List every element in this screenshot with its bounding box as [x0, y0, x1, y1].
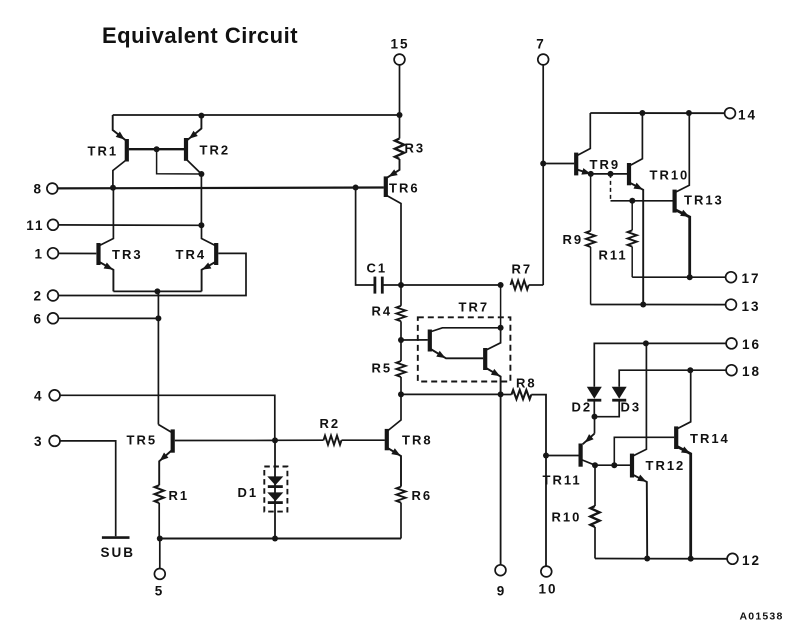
TR1 collector lead: [113, 160, 127, 188]
TR4 collector lead: [202, 225, 217, 246]
wire TR8 collector node to R8 node: [401, 393, 501, 395]
wire pin4 line: [55, 395, 275, 440]
svg-text:R7: R7: [512, 262, 533, 277]
node TR10 emitter on pin13 rail: [640, 302, 646, 308]
node D2/D3 cathodes junction: [592, 414, 598, 420]
wire pin2 to TR4 base: [53, 253, 246, 295]
wire R7 right lead: [529, 284, 544, 286]
wire R4 to R5: [400, 321, 402, 361]
wire TR7a base lead: [401, 339, 428, 341]
wire pin3 to SUB: [55, 441, 116, 536]
svg-text:TR14: TR14: [690, 431, 730, 446]
transistor TR6 emitter lead: [386, 159, 399, 178]
node pin11/TR2/TR4 collector junction: [198, 222, 204, 228]
wire R8 to pin10: [531, 395, 546, 566]
svg-text:D3: D3: [621, 400, 642, 415]
resistor R8: [512, 390, 532, 399]
wire to TR14 base: [614, 437, 674, 465]
TR12 collector lead: [632, 343, 646, 456]
svg-text:C1: C1: [367, 261, 388, 276]
TR5 emitter arrow: [157, 453, 168, 464]
wire pin13 rail: [591, 304, 726, 306]
svg-text:2: 2: [33, 289, 43, 304]
transistor TR1 emitter lead: [113, 115, 126, 141]
node TR13 collector on rail: [686, 110, 692, 116]
node TR11 collector junction: [592, 462, 598, 468]
wire TR11 base lead: [546, 455, 579, 457]
TR4 emitter lead: [202, 262, 217, 292]
wire R11 to pin17 rail: [631, 247, 633, 278]
wire R9 to pin13 rail: [590, 247, 592, 305]
TR11 collector lead: [582, 460, 595, 465]
TR8 collector lead: [387, 394, 401, 431]
wire top-left supply rail: [113, 114, 400, 116]
TR8 emitter lead: [387, 448, 401, 487]
pin 12 terminal: [727, 553, 738, 564]
svg-text:6: 6: [33, 311, 43, 326]
svg-text:7: 7: [536, 37, 546, 52]
svg-text:9: 9: [497, 584, 507, 599]
svg-text:TR5: TR5: [127, 432, 158, 447]
resistor R6: [396, 487, 405, 503]
transistor TR2 emitter lead: [187, 116, 201, 141]
node emitter-tie junction: [154, 288, 160, 294]
svg-text:17: 17: [742, 271, 761, 286]
transistor TR14 bar: [674, 426, 678, 449]
svg-text:D1: D1: [238, 485, 259, 500]
svg-text:5: 5: [155, 584, 165, 599]
svg-text:R8: R8: [516, 376, 537, 391]
svg-text:R9: R9: [563, 232, 584, 247]
node TR12 collector on pin16 rail: [643, 340, 649, 346]
wire TR11 collector to TR12 base: [595, 464, 630, 466]
wire TR2 base-collector tie: [157, 149, 202, 174]
wire TR7 collector up to R7 node: [500, 285, 502, 328]
node TR7 base tap: [398, 337, 404, 343]
node C1/R4/TR6 junction: [398, 282, 404, 288]
svg-text:TR12: TR12: [646, 458, 686, 473]
svg-text:R1: R1: [169, 488, 190, 503]
node R1/pin5 junction: [157, 536, 163, 542]
pin 1 terminal: [48, 248, 59, 259]
wire TR9 emitter to TR10 base: [591, 173, 627, 175]
svg-text:14: 14: [738, 107, 757, 122]
node R7 / TR7 collector junction: [498, 282, 504, 288]
pin 10 terminal: [541, 566, 552, 577]
wire pin8 rail to TR6 base: [52, 186, 384, 189]
node pin15 / rail / R3 junction: [397, 112, 403, 118]
svg-text:10: 10: [538, 582, 557, 597]
wire D1 through-wire: [274, 440, 276, 538]
TR5 emitter lead: [159, 450, 173, 486]
svg-text:R11: R11: [599, 248, 628, 263]
TR11 emitter arrow (PNP): [583, 434, 594, 445]
wire pin7 lead: [542, 65, 544, 164]
wire to R4: [400, 285, 402, 306]
node pin7/TR9 base junction: [540, 161, 546, 167]
TR7a collector lead: [430, 328, 501, 332]
pin 8 terminal: [47, 183, 58, 194]
node D1 bottom junction: [272, 536, 278, 542]
pin 11 terminal: [48, 219, 59, 230]
pin 18 terminal: [726, 365, 737, 376]
pin 5 terminal: [154, 569, 165, 580]
transistor TR5 bar: [171, 429, 175, 452]
TR13 emitter lead: [675, 209, 690, 277]
TR14 emitter arrow: [681, 446, 692, 456]
wire pin7 column down to R7: [542, 164, 544, 286]
svg-text:TR13: TR13: [684, 193, 724, 208]
wire tail current line down to TR5: [157, 291, 159, 424]
svg-text:D2: D2: [572, 400, 593, 415]
wire bottom rail: [159, 538, 401, 540]
TR1 emitter arrow (PNP): [116, 132, 127, 143]
wire pin11 line: [53, 224, 201, 226]
wire pin5 lead: [159, 539, 161, 569]
node TR14 base branch: [611, 462, 617, 468]
svg-text:13: 13: [742, 299, 761, 314]
TR10 emitter lead down to pin13 rail: [629, 182, 643, 304]
pin 2 terminal: [48, 290, 59, 301]
TR2 emitter arrow (PNP): [187, 131, 198, 142]
wire R5 to lower node: [400, 377, 402, 394]
transistor TR3 bar: [96, 243, 100, 265]
wire R6 to bottom rail: [400, 503, 402, 539]
svg-text:TR2: TR2: [200, 143, 231, 158]
node TR1/TR3 collectors on pin8 rail: [110, 185, 116, 191]
svg-text:11: 11: [26, 218, 44, 233]
svg-text:16: 16: [742, 337, 761, 352]
node base-rail tap: [154, 146, 160, 152]
node TR13 base branch junction: [608, 171, 614, 177]
pin 6 terminal: [48, 313, 59, 324]
TR5 collector lead: [158, 425, 172, 434]
wire TR5 base line: [175, 439, 275, 441]
node TR7 emitter/R8/pin9 junction: [498, 391, 504, 397]
svg-text:3: 3: [34, 434, 44, 449]
wire R1 to bottom rail: [158, 503, 160, 539]
resistor R5: [396, 361, 405, 377]
transistor TR11 emitter lead: [583, 434, 595, 445]
TR7b collector lead: [485, 328, 500, 351]
transistor TR13 bar: [672, 190, 676, 213]
svg-text:TR10: TR10: [650, 168, 690, 183]
wire pin14 rail: [590, 112, 724, 114]
diode D1 lower: [267, 492, 283, 501]
node pin4/R2/D1 junction: [272, 437, 278, 443]
node R5/TR8 junction: [398, 391, 404, 397]
TR6 emitter arrow (PNP): [387, 169, 398, 179]
wire rail to R3: [399, 115, 401, 139]
wire D3 cathode jog: [595, 401, 620, 417]
TR9 emitter lead: [576, 169, 591, 174]
transistor TR1 bar: [125, 139, 129, 162]
TR10 emitter arrow: [634, 183, 645, 193]
resistor R3: [395, 139, 404, 159]
TR7b emitter lead: [485, 368, 500, 395]
svg-text:15: 15: [390, 37, 409, 52]
pin 4 terminal: [49, 390, 60, 401]
svg-text:4: 4: [34, 388, 44, 403]
diode D1 dashed box: [264, 467, 287, 512]
TR2 collector lead: [186, 159, 201, 174]
transistor TR7a bar: [428, 330, 432, 352]
svg-text:TR8: TR8: [402, 433, 433, 448]
TR7a emitter arrow: [436, 351, 447, 361]
pin 17 terminal: [726, 272, 737, 283]
TR3 collector lead: [99, 188, 114, 246]
pin 7 terminal: [538, 54, 549, 65]
svg-text:SUB: SUB: [101, 545, 136, 560]
node TR14 collector on pin18 rail: [687, 367, 693, 373]
TR13 emitter arrow: [680, 210, 691, 220]
TR8 emitter arrow: [391, 448, 402, 458]
pin 13 terminal: [726, 299, 737, 310]
svg-text:8: 8: [33, 182, 43, 197]
diode D1 upper: [267, 476, 283, 485]
TR12 emitter lead: [632, 474, 647, 558]
wire TR2 collector down to node: [200, 174, 202, 225]
TR13 collector lead: [675, 113, 690, 193]
svg-text:TR1: TR1: [88, 144, 119, 159]
diode D2: [587, 387, 602, 399]
svg-text:12: 12: [742, 553, 761, 568]
transistor TR10 bar: [627, 163, 631, 185]
wire pin9 lead: [500, 394, 502, 564]
node TR6 base tap: [353, 185, 359, 191]
node TR12 emitter on pin12 rail: [644, 556, 650, 562]
TR3 emitter lead: [99, 262, 114, 292]
resistor R9: [586, 231, 595, 247]
transistor TR6 bar: [384, 176, 388, 197]
wire TR6 base to C1: [356, 188, 374, 286]
TR6 collector lead: [386, 195, 401, 285]
ground SUB bar: [102, 536, 130, 539]
svg-text:R4: R4: [372, 304, 393, 319]
svg-text:TR9: TR9: [590, 157, 621, 172]
pin 16 terminal: [726, 338, 737, 349]
wire pin12 rail: [595, 558, 727, 560]
wire branch to TR13 base (dashed in scan): [610, 174, 612, 201]
pin 14 terminal: [725, 108, 736, 119]
svg-text:R2: R2: [320, 416, 341, 431]
wire pin17 rail: [632, 276, 725, 278]
TR3 emitter arrow: [104, 262, 115, 272]
pin 15 terminal: [394, 54, 405, 65]
wire to TR11 emitter: [594, 417, 596, 434]
TR7a emitter to TR7b base: [430, 349, 483, 359]
wire TR3/TR4 emitter tie: [113, 290, 201, 292]
wire pin18 rail to D3: [619, 370, 726, 387]
TR14 collector lead: [676, 370, 691, 429]
svg-text:A01538: A01538: [740, 611, 784, 623]
node TR2 emitter / rail junction: [198, 113, 204, 119]
node TR7 collectors junction: [498, 325, 504, 331]
resistor R10: [590, 506, 599, 527]
wire R2 to TR8 base: [342, 439, 385, 441]
node TR10 collector on rail: [639, 110, 645, 116]
svg-text:R3: R3: [405, 141, 426, 156]
wire to R11: [631, 201, 633, 231]
resistor R4: [396, 306, 405, 322]
svg-text:TR7: TR7: [459, 300, 490, 315]
wire pin6 line: [53, 317, 158, 319]
TR12 emitter arrow: [637, 475, 648, 485]
wire to R10: [594, 465, 596, 506]
wire R10 to pin12 rail: [594, 527, 596, 559]
TR10 collector lead: [629, 113, 642, 166]
wire pin16 rail to D2: [594, 343, 726, 386]
transistor TR9 bar: [574, 153, 578, 176]
resistor R11: [628, 230, 637, 246]
svg-text:TR4: TR4: [176, 247, 207, 262]
svg-text:TR11: TR11: [543, 473, 582, 488]
transistor TR4 bar: [214, 243, 218, 265]
svg-text:18: 18: [742, 364, 761, 379]
svg-text:R10: R10: [552, 510, 582, 525]
TR7b emitter arrow: [491, 369, 502, 379]
svg-text:TR6: TR6: [389, 181, 420, 196]
node R11 tap on TR13 base line: [629, 198, 635, 204]
wire D2 cathode down: [593, 401, 595, 417]
wire to R8: [501, 394, 512, 396]
svg-text:R5: R5: [372, 361, 393, 376]
wire TR13 base line: [611, 200, 673, 202]
resistor R7: [511, 280, 529, 289]
transistor TR7b bar: [483, 348, 487, 370]
wire pin15 lead: [399, 65, 401, 115]
transistor TR12 bar: [630, 454, 634, 478]
TR9 emitter arrow: [581, 168, 591, 177]
diode D3: [612, 387, 627, 399]
transistor TR2 bar: [184, 138, 188, 161]
node TR14 emitter on pin12 rail: [688, 556, 694, 562]
resistor R1: [155, 485, 164, 503]
wire C1 to center column: [383, 284, 401, 286]
svg-text:TR3: TR3: [112, 247, 143, 262]
node TR13 emitter on pin17 rail: [687, 274, 693, 280]
TR9 collector lead: [576, 113, 590, 156]
wire pin1 to TR3 base: [53, 252, 96, 254]
transistor TR8 bar: [385, 429, 389, 450]
svg-text:Equivalent Circuit: Equivalent Circuit: [102, 23, 298, 48]
wire C1 node to R7 node: [401, 284, 501, 286]
wire to R2: [275, 439, 324, 441]
transistor TR7 dashed box: [418, 317, 511, 381]
pin 9 terminal: [495, 565, 506, 576]
node TR2 collector tie: [198, 171, 204, 177]
capacitor C1: [373, 277, 376, 294]
wire TR9 base lead: [543, 163, 574, 165]
node TR11 base on pin10 line: [543, 453, 549, 459]
svg-text:1: 1: [34, 246, 44, 261]
TR4 emitter arrow: [200, 262, 211, 272]
resistor R2: [324, 436, 342, 445]
transistor TR11 bar: [578, 444, 582, 467]
node pin6 junction: [155, 315, 161, 321]
TR14 emitter lead: [676, 446, 691, 559]
node TR9 emitter junction: [588, 171, 594, 177]
svg-text:R6: R6: [412, 488, 433, 503]
pin 3 terminal: [49, 436, 60, 447]
wire down to R9: [590, 174, 592, 231]
wire TR1-TR2 base rail: [129, 148, 184, 150]
